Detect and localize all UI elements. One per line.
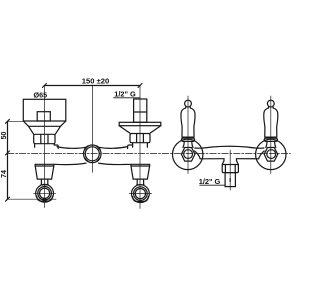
svg-text:1/2" G: 1/2" G: [114, 90, 136, 99]
svg-text:50: 50: [1, 132, 8, 140]
svg-text:74: 74: [1, 170, 8, 178]
svg-text:150 ±20: 150 ±20: [82, 77, 109, 86]
svg-text:Ø65: Ø65: [34, 90, 48, 99]
svg-text:1/2" G: 1/2" G: [199, 177, 221, 186]
